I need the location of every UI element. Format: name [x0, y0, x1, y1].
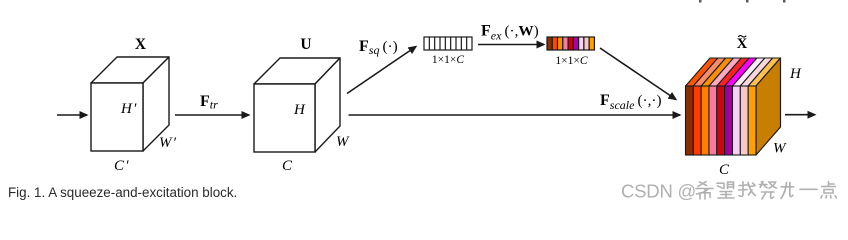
cube U front face [254, 84, 315, 152]
watermark char xi [696, 182, 713, 200]
recalibrated cube front slices [686, 86, 757, 155]
svg-text:Fscale (·,·): Fscale (·,·) [600, 92, 662, 112]
recalibrated cube X~ top face stripes [686, 58, 781, 86]
F_sq arrow [347, 47, 416, 94]
excitation vector colored cells [547, 37, 594, 50]
svg-text:1×1×C: 1×1×C [555, 55, 587, 67]
cube X front face [91, 83, 143, 151]
scale diagonal arrow [600, 48, 676, 100]
watermark char li [781, 183, 794, 199]
cube X top face [91, 57, 169, 83]
svg-text:X: X [737, 36, 748, 52]
watermark char dian [821, 182, 837, 199]
F_tr arrow [175, 114, 249, 116]
svg-text:Fsq (·): Fsq (·) [359, 38, 398, 57]
svg-text:C: C [719, 162, 730, 178]
watermark char wo [739, 182, 756, 197]
svg-text:Fex (·,W): Fex (·,W) [481, 23, 539, 43]
svg-text:1×1×C: 1×1×C [432, 54, 464, 66]
cube X right face [143, 57, 169, 151]
svg-text:U: U [300, 36, 311, 53]
input arrow [57, 114, 87, 116]
squeeze vector 1x1xC white cells [424, 37, 472, 50]
svg-text:Fig. 1. A squeeze-and-excitati: Fig. 1. A squeeze-and-excitation block. [8, 185, 237, 200]
scale long horizontal arrow [349, 114, 681, 116]
recalibrated cube right face [756, 58, 781, 155]
svg-text:CSDN @: CSDN @ [621, 181, 696, 202]
svg-text:Ftr: Ftr [200, 93, 218, 112]
crop artifact dots top edge [699, 0, 786, 3]
watermark char yi [800, 188, 817, 190]
svg-text:X: X [135, 36, 147, 53]
svg-text:W: W [773, 141, 787, 157]
svg-text:W: W [336, 134, 350, 150]
output arrow [785, 114, 815, 116]
watermark char nu [760, 182, 777, 200]
watermark char wang [717, 182, 734, 198]
svg-text:H: H [789, 66, 802, 82]
svg-text:H ′: H ′ [120, 101, 137, 117]
svg-text:W ′: W ′ [159, 135, 177, 151]
cube U right face [315, 58, 340, 152]
svg-text:H: H [293, 102, 306, 118]
svg-text:C ′: C ′ [114, 158, 129, 174]
cube U top face [254, 58, 340, 84]
svg-text:C: C [282, 158, 293, 174]
F_ex arrow [478, 44, 544, 46]
